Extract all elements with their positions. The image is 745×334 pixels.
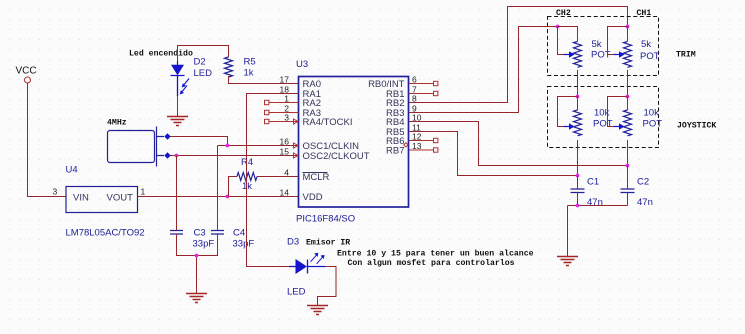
svg-text:33pF: 33pF — [233, 239, 255, 250]
svg-text:13: 13 — [412, 141, 422, 151]
junction pot4 top — [626, 95, 630, 99]
svg-text:VCC: VCC — [16, 66, 37, 77]
svg-text:47n: 47n — [637, 197, 653, 208]
wire OSC1 pin 16 — [218, 145, 299, 147]
wire pot1 bottom to pot3 — [577, 70, 579, 97]
dashed box JOYSTICK — [548, 87, 659, 148]
ground (C3/C4) — [186, 294, 207, 303]
stub pin 3 — [265, 119, 299, 123]
svg-text:8: 8 — [412, 93, 417, 103]
junction on VDD rail — [226, 195, 230, 199]
svg-text:CH1: CH1 — [637, 9, 652, 18]
svg-text:LM78L05AC/TO92: LM78L05AC/TO92 — [66, 228, 145, 239]
svg-text:U4: U4 — [66, 165, 78, 176]
resistor R4 — [237, 157, 257, 192]
ground (D2) — [167, 117, 188, 126]
wire D2 top to R5 top — [178, 46, 229, 62]
svg-text:D2: D2 — [194, 57, 206, 68]
wire RB5 pin 11 to C1 — [409, 132, 578, 176]
wire pot3 bottom to C1 — [577, 140, 579, 176]
pin numbers right — [412, 74, 422, 151]
junction CH1 — [626, 25, 630, 29]
svg-text:MCLR: MCLR — [303, 172, 330, 183]
svg-text:6: 6 — [412, 74, 417, 84]
svg-text:Con algun mosfet para controla: Con algun mosfet para controlarlos — [348, 258, 515, 268]
svg-text:3: 3 — [284, 112, 289, 122]
svg-text:4: 4 — [284, 167, 289, 177]
svg-text:C1: C1 — [587, 177, 599, 188]
svg-text:D3: D3 — [287, 237, 299, 248]
stub pin 13 — [409, 148, 438, 152]
svg-text:C3: C3 — [194, 228, 206, 239]
svg-text:Entre 10 y 15 para tener un bu: Entre 10 y 15 para tener un buen alcance — [337, 249, 534, 259]
potentiometer 10k POT (CH1) — [614, 108, 663, 136]
wire pot3 wiper branch — [558, 97, 578, 127]
regulator U4 box — [66, 187, 138, 213]
wire C4 lead up — [217, 146, 219, 231]
svg-text:RA4/TOCKI: RA4/TOCKI — [303, 117, 353, 128]
wire R5 to U3 pin 17 — [229, 76, 299, 84]
power port VCC — [16, 66, 37, 84]
svg-text:POT: POT — [643, 119, 663, 130]
svg-text:Led encendido: Led encendido — [129, 49, 193, 59]
wire pot4 bottom to C2 — [627, 140, 629, 166]
svg-text:16: 16 — [280, 136, 290, 146]
wire CH2 to pot1 wiper — [558, 27, 564, 55]
stub pin 6 — [409, 81, 438, 85]
svg-text:LED: LED — [287, 287, 306, 298]
svg-text:12: 12 — [412, 131, 422, 141]
wire C1/C2 bottoms to ground — [568, 206, 628, 257]
wire RB3 pin 9 to CH2 — [409, 27, 558, 113]
wire D3 cathode to ground — [318, 267, 337, 306]
wire C3 lead up — [176, 156, 178, 231]
clock marks pins 3,16,15 — [294, 119, 299, 158]
svg-text:OSC2/CLKOUT: OSC2/CLKOUT — [303, 151, 370, 162]
wire CH2 to pot1 top — [558, 27, 578, 42]
svg-text:PIC16F84/SO: PIC16F84/SO — [296, 214, 355, 225]
dashed box TRIM — [548, 17, 659, 76]
svg-text:33pF: 33pF — [193, 239, 215, 250]
stub pin 7 — [409, 91, 438, 95]
svg-text:VDD: VDD — [303, 192, 323, 203]
potentiometer 5k POT (CH1) — [614, 39, 660, 67]
svg-text:10: 10 — [412, 112, 422, 122]
wire crystal top to OSC1 — [171, 137, 228, 146]
capacitor C4 — [211, 228, 254, 250]
wire VCC to U4 VIN — [28, 83, 67, 197]
ground (D3) — [307, 306, 328, 315]
wire CH1 to pot2 wiper — [608, 27, 628, 55]
LED D2 — [171, 57, 213, 97]
potentiometer 5k POT (CH2) — [564, 39, 611, 67]
svg-text:3: 3 — [53, 187, 58, 197]
wire pot4 top lead — [627, 97, 629, 111]
wire C3/C4 bottoms to ground — [177, 234, 218, 294]
wire crystal bottom to OSC2 pin 15 — [171, 155, 299, 157]
junction C1 bottom — [576, 204, 580, 208]
svg-text:R5: R5 — [244, 57, 256, 68]
svg-text:1k: 1k — [244, 68, 254, 79]
ground (C1/C2) — [557, 257, 578, 266]
wire VDD rail U4.VOUT to U3.VDD — [138, 196, 299, 198]
pin numbers left — [280, 74, 290, 197]
pin names right — [368, 79, 405, 157]
svg-text:POT: POT — [640, 51, 660, 62]
svg-text:JOYSTICK: JOYSTICK — [677, 122, 716, 131]
junction OSC1 — [226, 144, 230, 148]
stub pin 12 — [409, 138, 438, 142]
clock mark pin 12 — [404, 143, 408, 147]
svg-text:C2: C2 — [637, 177, 649, 188]
capacitor C2 — [621, 166, 653, 209]
wire pot4 wiper branch — [608, 97, 628, 127]
svg-text:5k: 5k — [592, 39, 602, 50]
wire pot2 bottom to pot4 — [627, 70, 629, 97]
svg-text:POT: POT — [593, 119, 613, 130]
svg-text:Emisor IR: Emisor IR — [306, 238, 350, 248]
junction C1 top — [576, 174, 580, 178]
svg-text:VOUT: VOUT — [107, 193, 134, 204]
svg-text:14: 14 — [280, 187, 290, 197]
svg-text:CH2: CH2 — [556, 9, 571, 18]
wire D2 cathode to ground — [177, 96, 179, 116]
svg-text:VIN: VIN — [73, 193, 89, 204]
svg-text:TRIM: TRIM — [676, 51, 696, 60]
wire RB4 pin 10 to C2 — [409, 122, 628, 166]
svg-text:LED: LED — [194, 68, 213, 79]
svg-text:R4: R4 — [241, 157, 253, 168]
wire R4 to VDD — [229, 177, 238, 197]
svg-text:15: 15 — [280, 146, 290, 156]
wire R4 to MCLR pin 4 — [257, 176, 299, 178]
pin names left — [303, 79, 370, 203]
svg-text:17: 17 — [280, 74, 290, 84]
capacitor C3 — [170, 228, 214, 250]
resistor R5 — [225, 57, 256, 79]
wire RA1 pin 18 to D3 — [247, 94, 299, 267]
wire pot3 top lead — [577, 97, 579, 111]
svg-text:4MHz: 4MHz — [107, 119, 127, 128]
LED D3 emitter — [287, 237, 325, 298]
junction C3/C4 ground — [195, 254, 199, 258]
svg-text:RB7: RB7 — [386, 145, 404, 156]
stub pin 1 — [265, 100, 299, 104]
junction CH2 — [556, 25, 560, 29]
potentiometer 10k POT (CH2) — [564, 108, 613, 136]
svg-text:1: 1 — [141, 187, 146, 197]
svg-text:47n: 47n — [587, 197, 603, 208]
crystal Y1 4MHz — [108, 127, 171, 167]
svg-text:U3: U3 — [296, 59, 308, 70]
IC U3 PIC16F84 — [299, 77, 409, 208]
svg-text:1k: 1k — [242, 181, 252, 192]
svg-text:5k: 5k — [641, 39, 651, 50]
wire CH1 to pot2 top — [627, 27, 629, 42]
junction C2 top — [626, 164, 630, 168]
junction pot3 top — [576, 95, 580, 99]
stub pin 2 — [265, 110, 299, 114]
wire RB2 pin 8 to CH1 — [409, 7, 628, 103]
junction OSC2 / C3 — [175, 154, 179, 158]
capacitor C1 — [571, 176, 603, 209]
svg-text:10k: 10k — [644, 108, 660, 119]
svg-text:1: 1 — [284, 93, 289, 103]
svg-text:C4: C4 — [233, 228, 245, 239]
